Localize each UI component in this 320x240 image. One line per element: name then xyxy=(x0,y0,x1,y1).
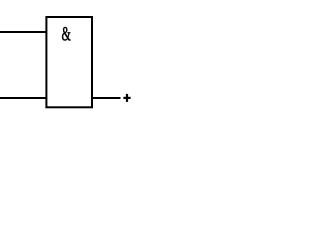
AND gate U1 symbol & xyxy=(62,27,71,40)
wire input A xyxy=(0,31,46,33)
wire output xyxy=(92,97,121,99)
node label + (output), horizontal bar xyxy=(123,97,130,99)
node label + (output), vertical bar xyxy=(126,94,128,102)
wire input B xyxy=(0,97,46,99)
AND gate U1 body xyxy=(46,17,92,107)
